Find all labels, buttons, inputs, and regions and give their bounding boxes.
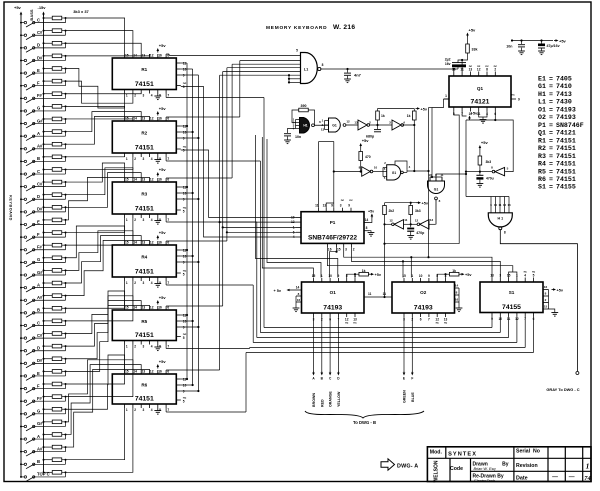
- svg-text:16: 16: [158, 54, 162, 58]
- svg-text:3: 3: [143, 408, 145, 412]
- svg-text:74193: 74193: [323, 305, 342, 312]
- svg-text:D: D: [37, 194, 40, 199]
- svg-text:16: 16: [455, 298, 459, 302]
- svg-text:1: 1: [411, 274, 413, 278]
- svg-text:7: 7: [167, 94, 169, 98]
- svg-text:KEYBOARD: KEYBOARD: [9, 195, 13, 221]
- svg-text:16: 16: [544, 285, 548, 289]
- svg-text:To DWG - B: To DWG - B: [353, 420, 376, 425]
- svg-text:C: C: [37, 320, 40, 325]
- svg-text:8: 8: [366, 226, 368, 230]
- svg-text:SN8746F: SN8746F: [556, 122, 584, 129]
- svg-text:13: 13: [142, 370, 146, 374]
- svg-text:+5v: +5v: [471, 111, 479, 116]
- svg-text:15: 15: [402, 274, 406, 278]
- svg-text:16: 16: [158, 370, 162, 374]
- svg-text:2µ2: 2µ2: [445, 58, 451, 62]
- svg-text:+5v: +5v: [421, 108, 428, 112]
- svg-text:By: By: [502, 461, 509, 467]
- svg-text:F#: F#: [37, 245, 43, 250]
- svg-text:R5: R5: [141, 319, 147, 324]
- svg-text:16: 16: [328, 247, 332, 251]
- svg-text:12: 12: [477, 67, 481, 71]
- svg-text:74151: 74151: [135, 396, 154, 403]
- svg-text:74151: 74151: [556, 161, 576, 168]
- svg-text:4n7: 4n7: [354, 73, 362, 78]
- svg-text:+5v: +5v: [159, 43, 167, 48]
- svg-text:7: 7: [167, 218, 169, 222]
- svg-text:16v: 16v: [445, 62, 451, 66]
- svg-text:13: 13: [142, 117, 146, 121]
- svg-text:13: 13: [142, 178, 146, 182]
- svg-text:WELSON: WELSON: [433, 460, 439, 482]
- svg-text:nc: nc: [524, 270, 528, 274]
- svg-text:7: 7: [167, 345, 169, 349]
- svg-text:12: 12: [150, 370, 154, 374]
- svg-text:Code: Code: [450, 466, 463, 472]
- svg-text:11: 11: [383, 292, 387, 296]
- svg-text:G#: G#: [37, 270, 43, 275]
- svg-text:nc: nc: [532, 270, 536, 274]
- svg-text:O2: O2: [420, 290, 427, 295]
- svg-text:7413: 7413: [556, 91, 572, 98]
- svg-text:R3: R3: [538, 153, 546, 160]
- svg-text:74151: 74151: [135, 81, 154, 88]
- svg-text:+5v: +5v: [481, 140, 489, 145]
- svg-text:—: —: [552, 474, 558, 480]
- svg-text:2: 2: [134, 345, 136, 349]
- svg-text:5: 5: [183, 210, 185, 214]
- svg-text:nc: nc: [477, 64, 481, 68]
- svg-text:1k: 1k: [407, 114, 411, 118]
- svg-text:=: =: [549, 91, 553, 98]
- svg-text:F#: F#: [37, 93, 43, 98]
- svg-text:ORANGE: ORANGE: [329, 391, 333, 407]
- svg-text:=: =: [549, 137, 553, 144]
- svg-text:=: =: [549, 184, 553, 191]
- svg-text:H1: H1: [303, 124, 307, 128]
- svg-text:12: 12: [389, 219, 393, 223]
- svg-text:G#: G#: [37, 118, 43, 123]
- svg-text:8: 8: [486, 67, 488, 71]
- svg-text:74151: 74151: [556, 168, 576, 175]
- svg-text:10: 10: [419, 274, 423, 278]
- svg-text:W. 216: W. 216: [333, 24, 355, 31]
- svg-text:14: 14: [365, 218, 369, 222]
- svg-text:2: 2: [134, 281, 136, 285]
- svg-text:+ 5v: + 5v: [274, 289, 282, 293]
- svg-text:=: =: [549, 106, 553, 113]
- svg-text:+5v: +5v: [362, 138, 370, 143]
- svg-text:47µ/16v: 47µ/16v: [547, 44, 560, 48]
- svg-text:10: 10: [328, 274, 332, 278]
- svg-text:P1: P1: [330, 220, 336, 225]
- svg-text:F: F: [37, 81, 40, 86]
- svg-text:D: D: [37, 43, 40, 48]
- svg-text:=: =: [549, 130, 553, 137]
- svg-text:9: 9: [428, 274, 430, 278]
- svg-text:11: 11: [404, 218, 408, 222]
- svg-text:BASS: BASS: [29, 9, 34, 20]
- svg-text:G1: G1: [392, 171, 396, 175]
- svg-text:R3: R3: [141, 191, 147, 196]
- svg-text:14: 14: [133, 306, 137, 310]
- svg-text:G: G: [37, 106, 40, 111]
- svg-text:14: 14: [133, 178, 137, 182]
- svg-text:R2: R2: [141, 130, 147, 135]
- svg-text:4: 4: [293, 235, 295, 239]
- svg-text:7: 7: [167, 408, 169, 412]
- svg-text:O2: O2: [538, 114, 546, 121]
- svg-text:nc: nc: [349, 198, 353, 202]
- svg-text:E1: E1: [538, 76, 546, 83]
- svg-text:=: =: [549, 176, 553, 183]
- svg-text:nc: nc: [353, 321, 357, 325]
- svg-text:13: 13: [142, 306, 146, 310]
- svg-text:7430: 7430: [556, 99, 572, 106]
- svg-text:74151: 74151: [135, 332, 154, 339]
- svg-text:74193: 74193: [556, 106, 576, 113]
- svg-text:13: 13: [469, 67, 473, 71]
- svg-text:74155: 74155: [556, 184, 576, 191]
- svg-text:11: 11: [368, 292, 372, 296]
- svg-text:1: 1: [445, 94, 447, 98]
- svg-text:3k3: 3k3: [415, 209, 421, 213]
- svg-text:nc: nc: [469, 64, 473, 68]
- svg-text:11: 11: [315, 204, 319, 208]
- svg-text:A#: A#: [37, 446, 43, 451]
- svg-text:F#: F#: [37, 396, 43, 401]
- svg-text:B: B: [37, 156, 40, 161]
- svg-text:+5v: +5v: [557, 289, 564, 293]
- svg-text:H1: H1: [538, 91, 546, 98]
- svg-text:1: 1: [126, 157, 128, 161]
- svg-text:14: 14: [133, 117, 137, 121]
- svg-text:12: 12: [346, 120, 350, 124]
- svg-text:H 1: H 1: [498, 217, 504, 221]
- svg-text:3: 3: [345, 247, 347, 251]
- svg-text:2: 2: [134, 408, 136, 412]
- svg-text:F: F: [37, 383, 40, 388]
- svg-text:1: 1: [126, 281, 128, 285]
- svg-text:1k: 1k: [362, 269, 366, 273]
- svg-text:G1: G1: [332, 124, 337, 128]
- svg-text:SNB746F/29722: SNB746F/29722: [308, 235, 357, 242]
- svg-text:No: No: [533, 448, 540, 454]
- svg-text:=: =: [549, 122, 553, 129]
- svg-text:13: 13: [142, 241, 146, 245]
- svg-text:GRAY To DWG - C: GRAY To DWG - C: [546, 387, 579, 392]
- svg-text:15: 15: [125, 178, 129, 182]
- svg-text:S1: S1: [538, 184, 546, 191]
- svg-text:3: 3: [143, 94, 145, 98]
- svg-text:Brian W. Esq: Brian W. Esq: [474, 467, 497, 471]
- svg-text:F: F: [411, 377, 413, 381]
- svg-text:S1: S1: [509, 290, 515, 295]
- svg-text:390: 390: [301, 104, 307, 108]
- svg-text:74121: 74121: [556, 130, 576, 137]
- svg-text:+5v: +5v: [159, 106, 167, 111]
- svg-text:nc: nc: [341, 198, 345, 202]
- svg-text:1: 1: [126, 218, 128, 222]
- svg-text:C: C: [37, 17, 40, 22]
- svg-text:SYNTEX: SYNTEX: [448, 451, 477, 457]
- svg-text:E: E: [37, 68, 40, 73]
- svg-text:Serial: Serial: [516, 448, 531, 454]
- svg-text:14: 14: [133, 370, 137, 374]
- svg-text:R5: R5: [538, 168, 546, 175]
- svg-text:+5v: +5v: [375, 273, 382, 277]
- svg-text:7410: 7410: [556, 83, 572, 90]
- svg-text:E: E: [37, 219, 40, 224]
- svg-text:G1: G1: [538, 83, 546, 90]
- svg-text:4: 4: [151, 345, 153, 349]
- svg-text:10: 10: [374, 166, 378, 170]
- svg-text:R4: R4: [141, 254, 147, 259]
- svg-text:1: 1: [586, 462, 590, 471]
- svg-text:4: 4: [151, 408, 153, 412]
- svg-text:16: 16: [297, 298, 301, 302]
- svg-text:MEMORY KEYBOARD: MEMORY KEYBOARD: [266, 25, 327, 31]
- svg-text:+5v: +5v: [159, 167, 167, 172]
- svg-text:14: 14: [296, 286, 300, 290]
- svg-text:16: 16: [158, 117, 162, 121]
- svg-text:12: 12: [150, 306, 154, 310]
- svg-text:74151: 74151: [135, 206, 154, 213]
- svg-text:—: —: [569, 474, 575, 480]
- svg-text:=: =: [549, 76, 553, 83]
- svg-text:1: 1: [126, 345, 128, 349]
- svg-text:G: G: [37, 409, 40, 414]
- svg-text:15: 15: [337, 247, 341, 251]
- svg-text:5: 5: [296, 49, 298, 53]
- svg-text:15: 15: [125, 241, 129, 245]
- svg-text:Date: Date: [516, 476, 528, 482]
- svg-text:B: B: [37, 459, 40, 464]
- svg-text:+5v: +5v: [559, 39, 567, 44]
- svg-text:74193: 74193: [556, 114, 576, 121]
- svg-text:nc: nc: [485, 64, 489, 68]
- svg-text:B: B: [37, 308, 40, 313]
- svg-text:5: 5: [183, 149, 185, 153]
- svg-text:D#: D#: [37, 207, 43, 212]
- svg-text:470u: 470u: [486, 177, 494, 181]
- svg-text:R6: R6: [141, 383, 147, 388]
- svg-text:1: 1: [321, 274, 323, 278]
- svg-text:C#: C#: [37, 30, 43, 35]
- svg-text:11: 11: [440, 173, 444, 177]
- svg-text:74151: 74151: [556, 153, 576, 160]
- svg-text:nc: nc: [511, 93, 515, 97]
- svg-text:74151: 74151: [556, 176, 576, 183]
- svg-text:16: 16: [158, 178, 162, 182]
- svg-text:9: 9: [518, 98, 520, 102]
- svg-text:74151: 74151: [556, 145, 576, 152]
- svg-text:YELLOW: YELLOW: [337, 391, 341, 407]
- svg-text:-15v: -15v: [38, 5, 47, 10]
- svg-text:5: 5: [183, 273, 185, 277]
- svg-text:15: 15: [125, 117, 129, 121]
- svg-text:12: 12: [150, 178, 154, 182]
- svg-text:5: 5: [453, 112, 455, 116]
- svg-text:+5v: +5v: [159, 230, 167, 235]
- svg-text:5: 5: [183, 336, 185, 340]
- svg-text:4: 4: [524, 273, 526, 277]
- svg-text:O1: O1: [538, 106, 546, 113]
- svg-text:A: A: [37, 434, 40, 439]
- svg-text:C#: C#: [37, 181, 43, 186]
- svg-text:13: 13: [323, 204, 327, 208]
- svg-text:O1: O1: [330, 290, 337, 295]
- svg-text:10n: 10n: [295, 135, 301, 139]
- svg-text:4: 4: [151, 281, 153, 285]
- svg-text:E: E: [37, 371, 40, 376]
- svg-text:G: G: [37, 257, 40, 262]
- svg-text:7: 7: [167, 157, 169, 161]
- svg-text:5: 5: [183, 400, 185, 404]
- svg-text:+5v: +5v: [159, 359, 167, 364]
- svg-text:10n: 10n: [506, 45, 512, 49]
- svg-text:R1: R1: [538, 137, 546, 144]
- svg-text:3k3 x 37: 3k3 x 37: [73, 9, 89, 14]
- svg-text:DWG- A: DWG- A: [397, 463, 418, 469]
- svg-text:13: 13: [430, 218, 434, 222]
- svg-text:4: 4: [151, 157, 153, 161]
- svg-text:13: 13: [490, 273, 494, 277]
- svg-text:R2: R2: [538, 145, 546, 152]
- svg-text:+5v: +5v: [422, 202, 429, 206]
- svg-text:Mod.: Mod.: [430, 449, 443, 455]
- svg-text:12: 12: [150, 241, 154, 245]
- svg-text:3: 3: [143, 157, 145, 161]
- svg-text:nc: nc: [436, 321, 440, 325]
- svg-text:8: 8: [504, 231, 506, 235]
- svg-text:2: 2: [494, 67, 496, 71]
- svg-text:3k3: 3k3: [486, 160, 492, 164]
- svg-text:+5v: +5v: [159, 295, 167, 300]
- svg-text:A: A: [37, 131, 40, 136]
- svg-text:+5v: +5v: [368, 210, 374, 214]
- svg-text:ElectroTech: ElectroTech: [474, 478, 496, 483]
- svg-text:5: 5: [533, 273, 535, 277]
- svg-text:10: 10: [291, 215, 295, 219]
- svg-text:15: 15: [125, 306, 129, 310]
- svg-text:4: 4: [151, 94, 153, 98]
- svg-text:+5v: +5v: [465, 273, 472, 277]
- svg-text:C: C: [37, 169, 40, 174]
- svg-text:5: 5: [183, 85, 185, 89]
- svg-text:Q1: Q1: [538, 130, 546, 137]
- svg-text:2k2: 2k2: [389, 209, 395, 213]
- svg-text:G1: G1: [434, 188, 439, 192]
- svg-text:D#: D#: [37, 55, 43, 60]
- svg-text:13: 13: [321, 128, 325, 132]
- svg-text:74: 74: [584, 475, 590, 482]
- svg-text:6: 6: [420, 317, 422, 321]
- svg-text:6: 6: [293, 230, 295, 234]
- svg-text:470p: 470p: [416, 231, 425, 235]
- svg-text:15: 15: [544, 305, 548, 309]
- svg-text:9: 9: [331, 204, 333, 208]
- svg-text:nc: nc: [444, 321, 448, 325]
- svg-text:+5v: +5v: [469, 28, 477, 33]
- svg-text:G#: G#: [37, 421, 43, 426]
- svg-text:9: 9: [338, 274, 340, 278]
- svg-text:15: 15: [125, 370, 129, 374]
- svg-text:74155: 74155: [502, 304, 521, 311]
- svg-text:+5v: +5v: [14, 5, 22, 10]
- svg-text:2: 2: [353, 247, 355, 251]
- svg-text:1k: 1k: [381, 114, 385, 118]
- svg-text:A#: A#: [37, 144, 43, 149]
- svg-text:2: 2: [134, 157, 136, 161]
- svg-text:12: 12: [150, 117, 154, 121]
- svg-text:12: 12: [291, 220, 295, 224]
- svg-text:1: 1: [293, 225, 295, 229]
- svg-text:Revision: Revision: [516, 463, 538, 469]
- svg-text:=: =: [549, 99, 553, 106]
- svg-text:1: 1: [126, 94, 128, 98]
- svg-text:=: =: [549, 83, 553, 90]
- svg-text:BLUE: BLUE: [411, 392, 415, 402]
- svg-text:R6: R6: [538, 176, 546, 183]
- svg-text:nc: nc: [494, 64, 498, 68]
- svg-text:74151: 74151: [135, 145, 154, 152]
- svg-text:nc: nc: [345, 321, 349, 325]
- svg-text:16: 16: [158, 306, 162, 310]
- svg-text:A#: A#: [37, 295, 43, 300]
- svg-text:=: =: [549, 114, 553, 121]
- svg-text:15: 15: [312, 274, 316, 278]
- svg-text:16: 16: [158, 241, 162, 245]
- svg-text:14: 14: [455, 284, 459, 288]
- svg-text:13: 13: [354, 121, 358, 125]
- svg-text:=: =: [549, 168, 553, 175]
- svg-text:1: 1: [126, 408, 128, 412]
- svg-text:P1: P1: [538, 122, 546, 129]
- svg-text:470: 470: [365, 155, 371, 159]
- svg-text:=: =: [549, 161, 553, 168]
- svg-text:3: 3: [499, 273, 501, 277]
- svg-text:12: 12: [415, 219, 419, 223]
- svg-text:E: E: [403, 377, 405, 381]
- svg-text:GREEN: GREEN: [403, 390, 407, 403]
- svg-text:9: 9: [348, 204, 350, 208]
- svg-text:74151: 74151: [135, 269, 154, 276]
- svg-text:L1: L1: [538, 99, 546, 106]
- svg-text:3: 3: [340, 204, 342, 208]
- svg-text:7405: 7405: [556, 76, 572, 83]
- svg-text:RED: RED: [320, 399, 324, 407]
- svg-text:8: 8: [322, 63, 324, 67]
- svg-text:7: 7: [167, 281, 169, 285]
- svg-text:4: 4: [151, 218, 153, 222]
- svg-text:3: 3: [143, 281, 145, 285]
- svg-text:D: D: [37, 346, 40, 351]
- svg-text:3: 3: [143, 218, 145, 222]
- svg-text:12: 12: [150, 54, 154, 58]
- svg-text:Q1: Q1: [477, 86, 484, 91]
- svg-text:2: 2: [134, 94, 136, 98]
- svg-text:7: 7: [428, 317, 430, 321]
- svg-text:BROWN: BROWN: [312, 393, 316, 407]
- svg-text:14: 14: [133, 241, 137, 245]
- svg-text:F: F: [37, 232, 40, 237]
- svg-text:L1: L1: [304, 68, 308, 72]
- svg-text:74193: 74193: [414, 305, 433, 312]
- svg-text:74151: 74151: [556, 137, 576, 144]
- svg-text:3: 3: [143, 345, 145, 349]
